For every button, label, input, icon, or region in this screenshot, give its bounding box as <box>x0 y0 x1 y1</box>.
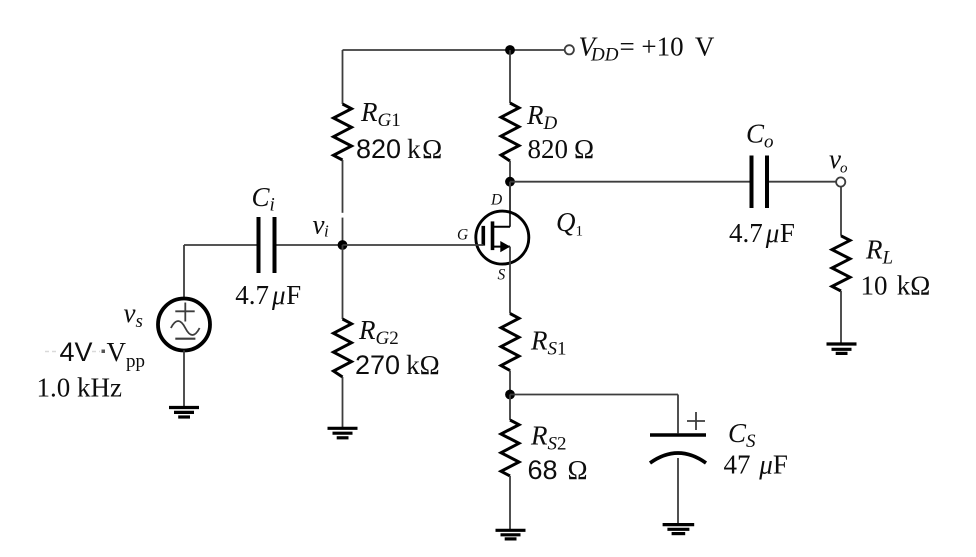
label VDD = +10 V <box>579 31 715 65</box>
resistor R_S2 <box>501 420 519 476</box>
label Q1 <box>556 207 583 240</box>
wire input segment from source <box>184 244 257 246</box>
value 820 kOhm <box>356 134 442 164</box>
resistor R_L <box>832 236 850 291</box>
label Ci <box>252 182 275 216</box>
resistor R_G1 <box>334 104 352 160</box>
svg-text:G: G <box>457 227 468 244</box>
svg-text:S: S <box>498 267 506 284</box>
wire node vi to gate <box>343 244 484 246</box>
resistor R_G2 <box>334 319 352 377</box>
svg-text:D: D <box>490 192 502 209</box>
wire Co to vo <box>769 181 836 183</box>
ground below CS <box>663 525 695 534</box>
pin label S <box>498 267 506 284</box>
svg-text:47 μF: 47 μF <box>724 450 788 480</box>
label RG2 <box>358 315 399 349</box>
resistor R_D <box>501 103 519 161</box>
wire RD bottom lead <box>509 161 511 182</box>
terminal vo <box>836 177 845 186</box>
ground below vs <box>169 408 199 418</box>
wire RG2 top lead <box>342 245 344 319</box>
label RL <box>865 235 893 269</box>
label RS1 <box>530 326 567 360</box>
pin label D <box>490 192 502 209</box>
wire RS2 bottom lead <box>509 476 511 530</box>
label vi <box>313 210 329 241</box>
label vs <box>124 298 143 332</box>
label RG1 <box>360 97 401 131</box>
svg-text:270kΩ: 270kΩ <box>355 350 440 380</box>
junction drain node <box>505 177 515 187</box>
label 1.0 kHz <box>37 373 122 403</box>
value 270 kOhm <box>355 350 440 380</box>
wire RS2 top lead <box>509 395 511 421</box>
value 4.7uF input <box>235 280 301 310</box>
junction top rail <box>505 45 515 55</box>
terminal VDD <box>565 45 574 54</box>
ground below RL <box>827 344 857 353</box>
wire Ci to node vi <box>277 244 343 246</box>
wire CS bottom lead <box>677 458 679 524</box>
transistor Q1 <box>476 211 529 264</box>
wire RL to ground <box>840 291 842 344</box>
label 4V Vpp <box>45 337 145 372</box>
capacitor CS polarized <box>650 412 706 463</box>
capacitor Co <box>752 156 768 209</box>
wire vs bottom lead <box>183 350 185 407</box>
capacitor Ci <box>259 217 275 273</box>
junction node vi <box>338 240 348 250</box>
value 820 Ohm <box>528 134 595 164</box>
wire RG1 top lead <box>342 50 344 104</box>
value 68 Ohm <box>528 455 588 485</box>
wire vo to RL <box>840 187 842 236</box>
svg-text:1.0 kHz: 1.0 kHz <box>37 373 122 403</box>
wire RD top lead <box>509 50 511 103</box>
wire source node to CS <box>510 394 678 396</box>
label Co <box>746 118 774 152</box>
wire RS1 to source node <box>509 371 511 395</box>
svg-text:4.7μF: 4.7μF <box>235 280 301 310</box>
value 47 uF <box>724 450 788 480</box>
svg-text:820Ω: 820Ω <box>528 134 595 164</box>
wire top rail <box>343 49 511 51</box>
svg-text:820kΩ: 820kΩ <box>356 134 442 164</box>
junction source node <box>505 390 515 400</box>
value 10 kOhm <box>861 271 931 301</box>
wire vs top lead <box>183 245 185 299</box>
label vo <box>829 144 848 177</box>
resistor R_S1 <box>501 314 519 371</box>
svg-text:4V: 4V <box>60 337 93 367</box>
label CS <box>728 418 756 452</box>
wire VDD stub <box>510 49 564 51</box>
pin label G <box>457 227 468 244</box>
wire drain node to Co <box>510 181 750 183</box>
source vs <box>158 299 210 351</box>
wire RG2 bottom lead <box>342 377 344 428</box>
value 4.7uF output <box>729 218 795 248</box>
label RD <box>526 100 558 134</box>
wire S to RS1 <box>509 247 511 314</box>
wire drain stub into Q1 <box>509 182 511 227</box>
ground below RS2 <box>496 530 526 539</box>
label RS2 <box>530 421 567 455</box>
wire CS top lead <box>677 395 679 434</box>
svg-text:4.7μF: 4.7μF <box>729 218 795 248</box>
wire RG1 to node vi <box>342 160 344 245</box>
ground below RG2 <box>328 428 358 438</box>
